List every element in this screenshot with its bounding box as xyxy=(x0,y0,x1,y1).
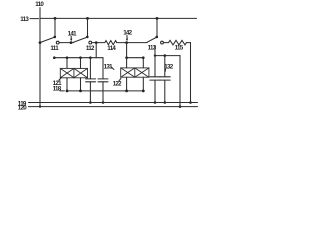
capacitor 132 right: top lead xyxy=(164,56,166,77)
terminal 110 label xyxy=(35,1,44,8)
node: blade tip contact dot of switch 113 xyxy=(156,36,159,39)
node: dot on rail 119 at right-side vertical xyxy=(189,101,192,104)
wire: branch 3 tap vertical below switch 113 xyxy=(154,46,156,56)
rail 119 xyxy=(29,102,198,104)
bus 118 label xyxy=(53,85,62,92)
switch 111 fixed contact circle xyxy=(56,41,59,44)
svg-text:122: 122 xyxy=(113,80,122,87)
resistor 115 xyxy=(169,40,187,45)
wire: leader from label 113 to top rail xyxy=(30,18,39,20)
svg-text:115: 115 xyxy=(175,44,184,51)
wire: arrester 121 left top lead xyxy=(66,58,68,69)
wire: arrester 122 right bottom lead to bus 118 end xyxy=(142,77,144,91)
wire: capacitor 132 left bottom lead to rail 119 xyxy=(154,80,156,102)
wire: right-side vertical from resistor 115 down to rail 119 xyxy=(190,43,192,103)
node 141 leader arrow xyxy=(70,36,72,41)
svg-text:142: 142 xyxy=(123,30,132,37)
node: branch 2 mini-rail left dot xyxy=(125,56,128,59)
wire: arrester 122 right top lead xyxy=(142,58,144,68)
arrester pair 121 box with X symbols xyxy=(60,68,87,77)
wire: arrester 121 right bottom lead to bus 118 xyxy=(80,78,82,91)
capacitor 132 right plates xyxy=(160,77,170,80)
node: dot at tap corner xyxy=(154,54,156,56)
switch 112 blade xyxy=(74,37,87,42)
capacitor 132 left plates xyxy=(150,77,160,80)
wire: tap right vertical down to rail 120 xyxy=(179,56,181,107)
arrester pair 122 box with X symbols xyxy=(121,68,149,77)
capacitor 131 right plates xyxy=(98,79,108,82)
capacitor 132 left: top lead xyxy=(154,56,156,77)
wire: terminal 110 vertical down left side to rail 120 xyxy=(39,8,41,107)
node: bus dot at arrester 122 left lead xyxy=(125,90,128,93)
node 143 leader arrow pointing up to switch 113 xyxy=(154,45,156,48)
node: branch 1 feed junction dot xyxy=(95,41,98,44)
node: dot mini-rail to arrester 121 left lead xyxy=(66,56,69,59)
resistor 115 label xyxy=(175,44,184,51)
node: junction dot on top rail above switch 112 xyxy=(86,17,89,20)
capacitor 132 label xyxy=(164,63,173,70)
arrester pair 122 label xyxy=(113,80,122,87)
node: dot on rail 119 at capacitor 132 right xyxy=(164,101,167,104)
wire: branch 1 mini-rail xyxy=(54,57,103,59)
wire: capacitor 131 left bottom lead to rail 119 xyxy=(89,82,91,103)
switch 113 fixed contact circle xyxy=(161,41,164,44)
node: blade tip contact dot of switch 112 xyxy=(86,36,89,39)
wire: row segment from switch 111 contact to node 141 xyxy=(59,42,73,44)
node 141 junction dot xyxy=(70,41,73,44)
wire: capacitor 131 right bottom lead to rail 119 xyxy=(102,82,104,103)
switch 113 blade xyxy=(147,37,156,42)
switch 112 fixed contact circle xyxy=(89,41,92,44)
node: junction dot on top rail above switch 113 xyxy=(156,17,159,20)
node: blade tip contact dot of switch 111 xyxy=(54,36,57,39)
capacitor 131 right: top lead from mini-rail corner xyxy=(102,58,104,79)
node: mini-rail left end dot xyxy=(53,56,56,59)
wire: from resistor 115 to right corner xyxy=(186,42,190,44)
wire: leader tick from label 132 xyxy=(164,69,166,71)
node 142 junction dot xyxy=(125,41,128,44)
switch 111 label xyxy=(50,45,59,52)
node 142 leader arrow xyxy=(126,35,128,41)
wire: row segment from switch 113 contact to resistor 115 xyxy=(163,42,168,44)
node: dot on rail 119 at capacitor 131 right xyxy=(102,101,105,104)
node 142 label xyxy=(123,30,132,37)
rail 120 label xyxy=(18,105,27,112)
node: bus 118 dot at arrester 121 right lead xyxy=(79,90,82,93)
switch 113 label xyxy=(148,44,157,51)
node: dot on rail 120 at tap vertical xyxy=(179,105,182,108)
switch 112 label xyxy=(86,45,95,52)
svg-text:120: 120 xyxy=(18,105,27,112)
wire: branch 2 feed vertical from node 142 xyxy=(126,43,128,58)
wire: drop from top rail to switch 112 blade tip xyxy=(87,18,89,37)
node 113 label (top-left rail label) xyxy=(20,16,29,23)
wire: row segment from resistor 114 to switch 113 pivot xyxy=(117,42,147,44)
wire: arrester 122 left bottom lead to bus 118 xyxy=(126,77,128,91)
rail 119 label xyxy=(18,100,27,107)
svg-text:141: 141 xyxy=(68,30,77,37)
node: dot on rail 119 at capacitor 131 left xyxy=(89,101,92,104)
capacitor 131 left plates xyxy=(86,79,96,82)
wire: arrester 121 left bottom lead to bus 118 xyxy=(66,78,68,91)
node: bus dot at arrester 122 right lead xyxy=(142,90,145,93)
wire: row segment from switch 112 contact to resistor 114 xyxy=(92,42,105,44)
node: bus 118 dot at arrester 121 left lead xyxy=(66,90,69,93)
node: branch 2 mini-rail right dot xyxy=(142,56,145,59)
wire: branch 2 mini-rail xyxy=(127,57,144,59)
wire: leader from label 131 xyxy=(111,67,114,70)
node: dot terminal 110 wire on rail 120 xyxy=(39,105,41,107)
svg-text:113: 113 xyxy=(20,16,29,23)
wire: drop from top rail to switch 113 blade tip xyxy=(156,18,158,37)
wire: top rail xyxy=(40,17,197,19)
resistor 114 xyxy=(105,41,117,45)
capacitor 131 label xyxy=(104,64,113,71)
node: dot on rail 119 at capacitor 132 left xyxy=(154,101,157,104)
capacitor 131 left: top lead xyxy=(89,58,91,79)
node: dot mini-rail to arrester 121 right lead xyxy=(79,56,82,59)
wire: bus 118 xyxy=(67,90,143,92)
wire: capacitor 132 right bottom lead to rail 119 xyxy=(164,80,166,102)
wire: branch 1 feed vertical xyxy=(95,43,97,58)
wire: leader from label 118 to bus xyxy=(60,90,64,92)
node: junction dot on top rail above switch 111 xyxy=(54,17,57,20)
svg-text:111: 111 xyxy=(50,45,59,52)
wire: arrester 122 left top lead xyxy=(126,58,128,68)
node 141 label xyxy=(68,30,77,37)
svg-text:114: 114 xyxy=(107,45,116,52)
wire: leader from label 122 to arrester box xyxy=(119,78,121,81)
switch 111 blade xyxy=(41,37,54,42)
node: dot at capacitor 132 right lead on tap xyxy=(164,54,167,57)
svg-text:112: 112 xyxy=(86,45,95,52)
wire: leader from label 121 to arrester box xyxy=(59,77,62,80)
arrester pair 121 label xyxy=(53,80,62,87)
node: pivot junction of switch 111 with terminal-110 wire xyxy=(39,41,42,44)
wire: arrester 121 right top lead xyxy=(80,58,82,69)
rail 120 xyxy=(29,106,198,108)
node: dot mini-rail to capacitor 131 left lead xyxy=(89,56,92,59)
wire: drop from top rail to switch 111 blade tip xyxy=(54,18,56,37)
resistor 114 label xyxy=(107,45,116,52)
wire: branch 3 tap horizontal to right-side vertical xyxy=(155,55,180,57)
